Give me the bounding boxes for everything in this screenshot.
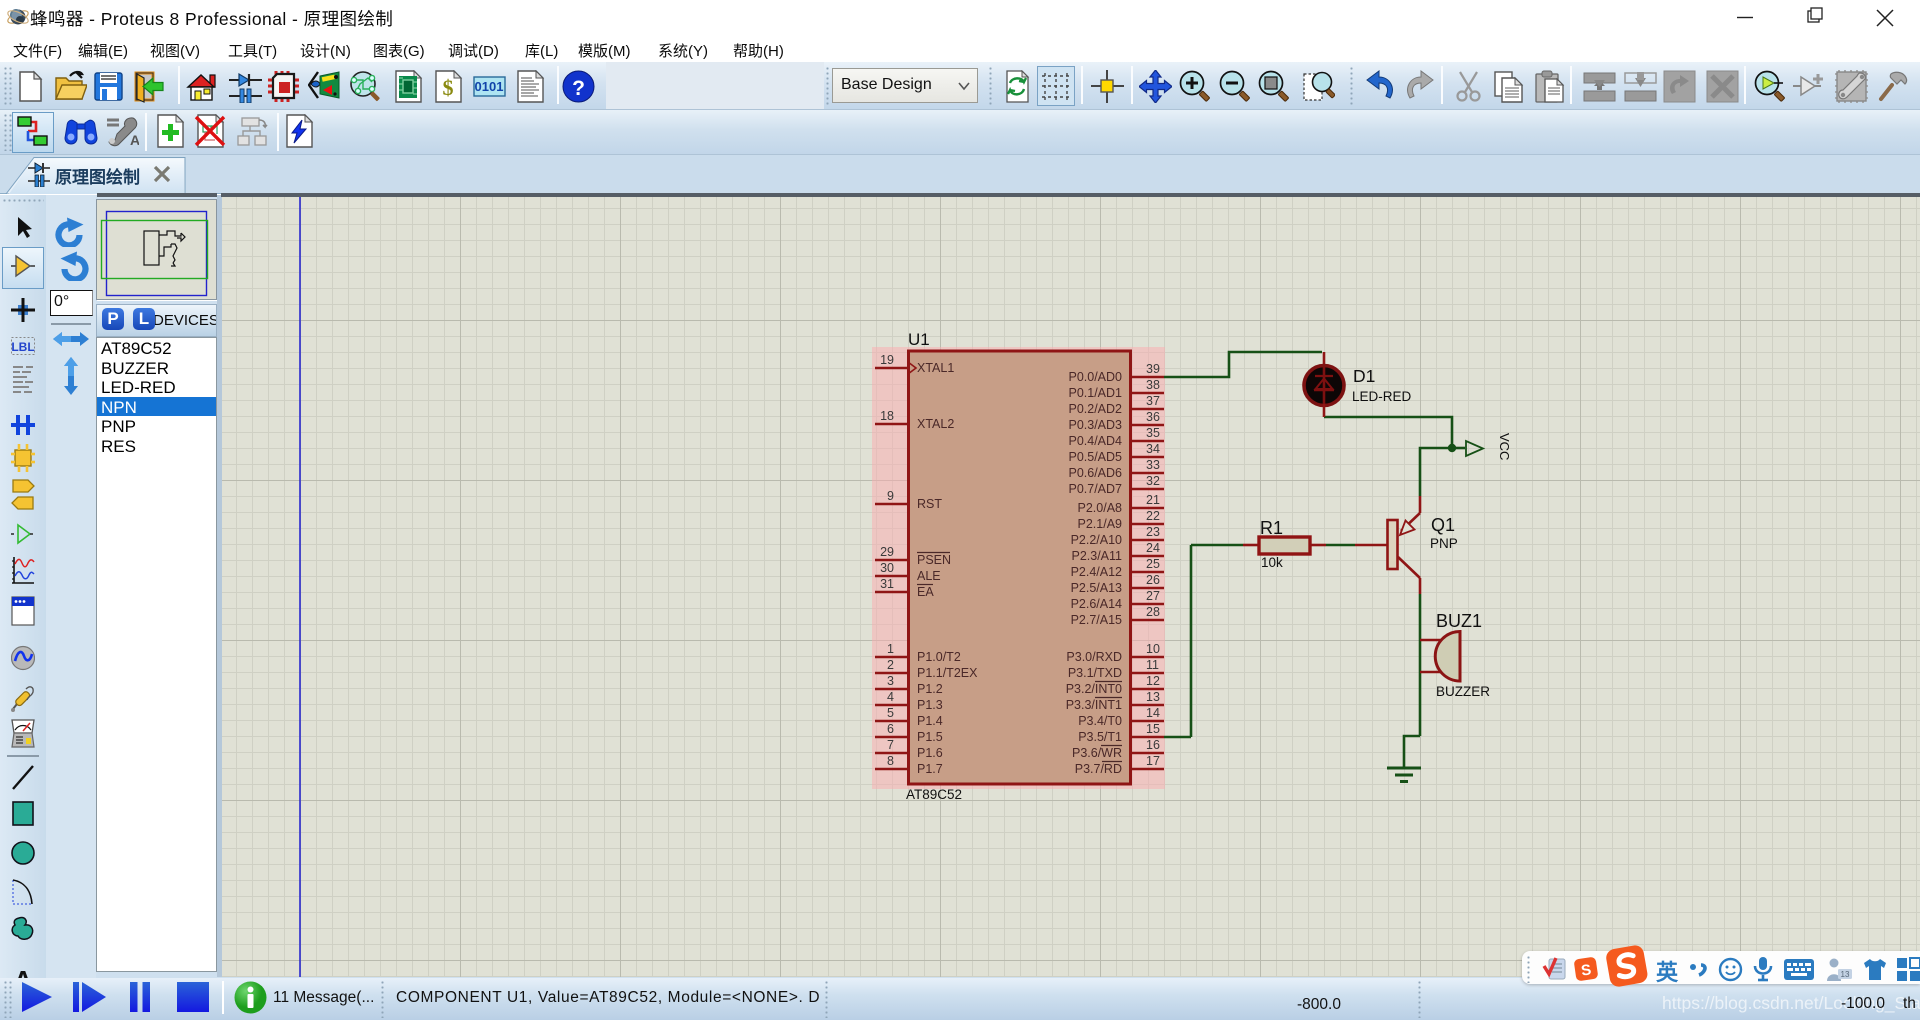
svg-text:35: 35 bbox=[1146, 426, 1160, 440]
svg-text:P1.1/T2EX: P1.1/T2EX bbox=[917, 666, 978, 680]
svg-text:9: 9 bbox=[887, 489, 894, 503]
svg-text:U1: U1 bbox=[908, 330, 930, 349]
svg-text:P3.4/T0: P3.4/T0 bbox=[1078, 714, 1122, 728]
svg-text:PSEN: PSEN bbox=[917, 553, 951, 567]
svg-text:7: 7 bbox=[887, 738, 894, 752]
svg-text:23: 23 bbox=[1146, 525, 1160, 539]
svg-text:R1: R1 bbox=[1260, 518, 1283, 538]
svg-text:P3.3/INT1: P3.3/INT1 bbox=[1066, 698, 1122, 712]
svg-text:28: 28 bbox=[1146, 605, 1160, 619]
svg-text:P0.5/AD5: P0.5/AD5 bbox=[1068, 450, 1122, 464]
svg-text:P3.2/INT0: P3.2/INT0 bbox=[1066, 682, 1122, 696]
svg-text:P2.3/A11: P2.3/A11 bbox=[1071, 549, 1122, 563]
svg-text:D1: D1 bbox=[1353, 366, 1375, 386]
svg-text:34: 34 bbox=[1146, 442, 1160, 456]
svg-text:P1.4: P1.4 bbox=[917, 714, 943, 728]
svg-text:$: $ bbox=[443, 75, 454, 100]
svg-text:21: 21 bbox=[1146, 493, 1160, 507]
svg-text:P1.2: P1.2 bbox=[917, 682, 943, 696]
svg-text:P2.1/A9: P2.1/A9 bbox=[1078, 517, 1123, 531]
svg-text:27: 27 bbox=[1146, 589, 1160, 603]
svg-text:33: 33 bbox=[1146, 458, 1160, 472]
svg-text:PNP: PNP bbox=[1430, 536, 1458, 551]
svg-text:P1.3: P1.3 bbox=[917, 698, 943, 712]
svg-text:P3.7/RD: P3.7/RD bbox=[1075, 762, 1122, 776]
svg-text:P1.5: P1.5 bbox=[917, 730, 943, 744]
svg-text:P3.1/TXD: P3.1/TXD bbox=[1068, 666, 1122, 680]
svg-text:P3.0/RXD: P3.0/RXD bbox=[1066, 650, 1122, 664]
svg-text:?: ? bbox=[572, 77, 585, 100]
svg-text:P3.5/T1: P3.5/T1 bbox=[1078, 730, 1122, 744]
svg-text:22: 22 bbox=[1146, 509, 1160, 523]
svg-text:29: 29 bbox=[880, 545, 894, 559]
svg-text:A: A bbox=[130, 132, 139, 148]
svg-text:P3.6/WR: P3.6/WR bbox=[1072, 746, 1122, 760]
svg-text:17: 17 bbox=[1146, 754, 1160, 768]
svg-text:15: 15 bbox=[1146, 722, 1160, 736]
svg-text:XTAL2: XTAL2 bbox=[917, 417, 954, 431]
svg-text:P1.0/T2: P1.0/T2 bbox=[917, 650, 961, 664]
svg-text:P1.7: P1.7 bbox=[917, 762, 943, 776]
svg-text:16: 16 bbox=[1146, 738, 1160, 752]
svg-text:11: 11 bbox=[1146, 658, 1159, 672]
svg-text:BUZ1: BUZ1 bbox=[1436, 611, 1482, 631]
svg-text:14: 14 bbox=[1146, 706, 1160, 720]
svg-text:LBL: LBL bbox=[11, 340, 34, 354]
svg-text:32: 32 bbox=[1146, 474, 1160, 488]
svg-text:P2.4/A12: P2.4/A12 bbox=[1071, 565, 1122, 579]
svg-text:25: 25 bbox=[1146, 557, 1160, 571]
svg-text:10: 10 bbox=[1146, 642, 1160, 656]
svg-text:8: 8 bbox=[887, 754, 894, 768]
svg-text:5: 5 bbox=[887, 706, 894, 720]
svg-text:P0.1/AD1: P0.1/AD1 bbox=[1068, 386, 1122, 400]
svg-text:2: 2 bbox=[887, 658, 894, 672]
svg-text:P0.2/AD2: P0.2/AD2 bbox=[1068, 402, 1122, 416]
svg-text:RST: RST bbox=[917, 497, 942, 511]
svg-text:VCC: VCC bbox=[1497, 433, 1512, 460]
svg-text:12: 12 bbox=[1146, 674, 1160, 688]
svg-text:XTAL1: XTAL1 bbox=[917, 361, 954, 375]
svg-text:38: 38 bbox=[1146, 378, 1160, 392]
svg-text:P2.7/A15: P2.7/A15 bbox=[1071, 613, 1122, 627]
svg-text:1: 1 bbox=[887, 642, 894, 656]
svg-text:19: 19 bbox=[880, 353, 894, 367]
svg-text:P2.0/A8: P2.0/A8 bbox=[1078, 501, 1123, 515]
svg-text:24: 24 bbox=[1146, 541, 1160, 555]
svg-text:18: 18 bbox=[880, 409, 894, 423]
svg-text:BUZZER: BUZZER bbox=[1436, 684, 1490, 699]
svg-text:P0.7/AD7: P0.7/AD7 bbox=[1068, 482, 1122, 496]
svg-text:P2.2/A10: P2.2/A10 bbox=[1071, 533, 1122, 547]
svg-text:13: 13 bbox=[1146, 690, 1160, 704]
svg-text:P1.6: P1.6 bbox=[917, 746, 943, 760]
svg-text:6: 6 bbox=[887, 722, 894, 736]
svg-text:Q1: Q1 bbox=[1431, 515, 1455, 535]
svg-text:3: 3 bbox=[887, 674, 894, 688]
svg-text:P2.5/A13: P2.5/A13 bbox=[1071, 581, 1122, 595]
svg-text:26: 26 bbox=[1146, 573, 1160, 587]
svg-text:0101: 0101 bbox=[475, 79, 504, 94]
svg-text:30: 30 bbox=[880, 561, 894, 575]
svg-text:LED-RED: LED-RED bbox=[1352, 389, 1412, 404]
svg-text:36: 36 bbox=[1146, 410, 1160, 424]
svg-text:10k: 10k bbox=[1261, 555, 1283, 570]
svg-text:ALE: ALE bbox=[917, 569, 941, 583]
svg-text:P0.0/AD0: P0.0/AD0 bbox=[1068, 370, 1122, 384]
svg-text:P0.4/AD4: P0.4/AD4 bbox=[1068, 434, 1122, 448]
svg-text:4: 4 bbox=[887, 690, 894, 704]
svg-text:37: 37 bbox=[1146, 394, 1160, 408]
svg-text:AT89C52: AT89C52 bbox=[906, 787, 962, 802]
svg-text:39: 39 bbox=[1146, 362, 1160, 376]
svg-text:P0.6/AD6: P0.6/AD6 bbox=[1068, 466, 1122, 480]
svg-text:P0.3/AD3: P0.3/AD3 bbox=[1068, 418, 1122, 432]
svg-text:13: 13 bbox=[1841, 970, 1850, 979]
svg-text:P2.6/A14: P2.6/A14 bbox=[1071, 597, 1122, 611]
svg-text:EA: EA bbox=[917, 585, 934, 599]
svg-text:31: 31 bbox=[880, 577, 894, 591]
